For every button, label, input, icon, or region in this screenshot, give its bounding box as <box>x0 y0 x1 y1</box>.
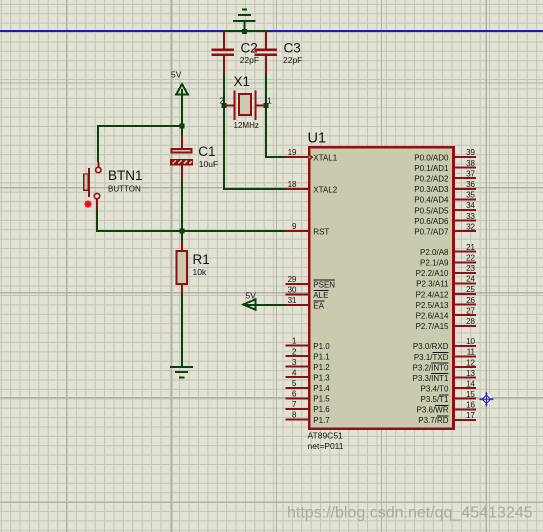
svg-text:27: 27 <box>466 306 475 315</box>
U1 pin 33 P0.6/AD6 <box>414 212 476 226</box>
svg-text:RST: RST <box>313 227 329 236</box>
svg-text:22pF: 22pF <box>283 55 302 65</box>
svg-text:9: 9 <box>292 222 297 231</box>
U1 pin 15 P3.5/T1 <box>420 390 476 404</box>
U1 pin 28 P2.7/A15 <box>416 317 476 331</box>
U1 pin 27 P2.6/A14 <box>416 306 476 320</box>
svg-text:XTAL1: XTAL1 <box>313 153 337 162</box>
U1 pin 25 P2.4/A12 <box>416 285 476 299</box>
svg-text:EA: EA <box>313 301 324 310</box>
svg-text:P0.5/AD5: P0.5/AD5 <box>414 206 449 215</box>
svg-text:34: 34 <box>466 201 475 210</box>
svg-text:2: 2 <box>220 96 225 105</box>
U1 pin 16 P3.6/WR <box>416 401 476 415</box>
U1 pin 35 P0.4/AD4 <box>414 191 476 205</box>
ground (top) <box>233 10 256 31</box>
svg-text:AT89C51: AT89C51 <box>308 430 344 440</box>
cursor crosshair marker <box>479 392 494 407</box>
wire: C3 to XTAL1 corner <box>266 74 287 157</box>
wire: 5V arrow down to junction <box>181 89 183 136</box>
svg-text:P2.2/A10: P2.2/A10 <box>416 269 449 278</box>
svg-text:P1.7: P1.7 <box>313 416 330 425</box>
wire: top horizontal blue line <box>0 30 543 32</box>
svg-text:P1.3: P1.3 <box>313 374 330 383</box>
U1 pin 23 P2.2/A10 <box>416 264 476 278</box>
svg-text:R1: R1 <box>193 252 210 267</box>
svg-text:36: 36 <box>466 180 475 189</box>
svg-text:19: 19 <box>288 148 297 157</box>
U1 pin 11 P3.1/TXD <box>414 348 476 362</box>
U1 pin 38 P0.1/AD1 <box>414 159 476 173</box>
svg-text:11: 11 <box>467 348 476 357</box>
wire: BTN1 bottom to RST rail <box>96 209 98 231</box>
svg-text:35: 35 <box>466 191 475 200</box>
U1 pin 26 P2.5/A13 <box>416 296 476 310</box>
svg-text:P3.6/WR: P3.6/WR <box>416 406 448 415</box>
junction: top ground node <box>242 29 247 34</box>
svg-text:P1.1: P1.1 <box>313 352 330 361</box>
U1 pin 31 EA <box>286 296 325 310</box>
svg-text:P2.7/A15: P2.7/A15 <box>416 322 449 331</box>
svg-text:13: 13 <box>466 369 475 378</box>
U1 pin 36 P0.3/AD3 <box>414 180 476 194</box>
capacitor C1 <box>170 136 218 180</box>
U1 pin 10 P3.0/RXD <box>413 337 476 351</box>
svg-text:PSEN: PSEN <box>313 280 335 289</box>
svg-text:C2: C2 <box>241 40 258 55</box>
svg-text:10uF: 10uF <box>199 159 218 169</box>
svg-text:5: 5 <box>292 379 297 388</box>
svg-text:P0.0/AD0: P0.0/AD0 <box>414 153 449 162</box>
U1 pin 32 P0.7/AD7 <box>414 222 476 236</box>
svg-text:26: 26 <box>466 296 475 305</box>
IC U1 AT89C51 body <box>308 130 454 451</box>
U1 pin 12 P3.2/INT0 <box>412 358 476 372</box>
svg-text:P1.2: P1.2 <box>313 363 330 372</box>
svg-text:2: 2 <box>292 347 297 356</box>
svg-text:C1: C1 <box>198 144 215 159</box>
capacitor C3 <box>254 31 302 74</box>
U1 pin 14 P3.4/T0 <box>420 379 476 393</box>
svg-text:P0.4/AD4: P0.4/AD4 <box>414 196 449 205</box>
U1 pin 8 P1.7 <box>286 411 331 425</box>
svg-text:U1: U1 <box>308 130 327 146</box>
svg-text:P1.4: P1.4 <box>313 384 330 393</box>
svg-text:15: 15 <box>466 390 475 399</box>
U1 pin 37 P0.2/AD2 <box>414 169 476 183</box>
svg-text:XTAL2: XTAL2 <box>313 185 337 194</box>
svg-text:P2.3/A11: P2.3/A11 <box>416 280 449 289</box>
capacitor C2 <box>211 31 259 74</box>
svg-text:P2.4/A12: P2.4/A12 <box>416 290 449 299</box>
resistor R1 <box>176 241 209 294</box>
svg-text:P3.4/T0: P3.4/T0 <box>420 385 449 394</box>
svg-text:39: 39 <box>466 148 475 157</box>
ground (bottom) <box>170 367 193 377</box>
svg-text:P3.5/T1: P3.5/T1 <box>420 395 449 404</box>
svg-text:C3: C3 <box>284 40 301 55</box>
U1 pin 29 PSEN <box>286 275 336 289</box>
svg-text:P2.0/A8: P2.0/A8 <box>420 248 449 257</box>
svg-text:12: 12 <box>466 358 475 367</box>
U1 pin 30 ALE <box>286 286 329 300</box>
svg-text:P2.1/A9: P2.1/A9 <box>420 259 449 268</box>
svg-text:P2.5/A13: P2.5/A13 <box>416 301 449 310</box>
svg-text:1: 1 <box>267 96 272 105</box>
button BTN1 <box>84 162 143 209</box>
svg-text:P3.3/INT1: P3.3/INT1 <box>412 374 449 383</box>
svg-text:P3.0/RXD: P3.0/RXD <box>413 342 449 351</box>
U1 pin 7 P1.6 <box>286 400 331 414</box>
svg-text:https://blog.csdn.net/qq_45413: https://blog.csdn.net/qq_45413245 <box>287 505 533 522</box>
svg-text:P3.1/TXD: P3.1/TXD <box>414 353 449 362</box>
U1 pin 22 P2.1/A9 <box>420 254 476 268</box>
U1 pin 4 P1.3 <box>286 368 331 382</box>
svg-text:P0.1/AD1: P0.1/AD1 <box>414 164 449 173</box>
svg-text:P0.3/AD3: P0.3/AD3 <box>414 185 449 194</box>
svg-text:X1: X1 <box>234 74 251 89</box>
svg-text:7: 7 <box>292 400 297 409</box>
svg-text:P1.5: P1.5 <box>313 395 330 404</box>
U1 pin 13 P3.3/INT1 <box>412 369 476 383</box>
power +5V (EA pin) <box>243 290 256 310</box>
svg-text:1: 1 <box>292 337 297 346</box>
junction: RST node <box>180 229 185 234</box>
wire: R1 to ground <box>181 294 183 368</box>
svg-text:21: 21 <box>466 243 475 252</box>
svg-text:6: 6 <box>292 390 297 399</box>
U1 pin 18 XTAL2 <box>286 180 338 194</box>
U1 pin 5 P1.4 <box>286 379 331 393</box>
svg-text:22pF: 22pF <box>240 55 259 65</box>
U1 pin 17 P3.7/RD <box>418 411 476 425</box>
svg-text:P3.7/RD: P3.7/RD <box>418 416 448 425</box>
svg-text:24: 24 <box>466 275 475 284</box>
svg-text:37: 37 <box>466 169 475 178</box>
wire: C2 to XTAL2 corner <box>224 74 287 189</box>
svg-text:3: 3 <box>292 358 297 367</box>
svg-text:5V: 5V <box>171 70 182 80</box>
svg-text:30: 30 <box>288 286 297 295</box>
svg-text:net=P011: net=P011 <box>308 441 344 451</box>
junction: 5V rail / BTN1 top node <box>180 124 185 129</box>
U1 pin 39 P0.0/AD0 <box>414 148 476 162</box>
U1 pin 6 P1.5 <box>286 390 331 404</box>
svg-text:4: 4 <box>292 368 297 377</box>
svg-text:BTN1: BTN1 <box>108 168 143 183</box>
svg-text:BUTTON: BUTTON <box>108 184 141 193</box>
svg-text:P0.6/AD6: P0.6/AD6 <box>414 217 449 226</box>
svg-text:22: 22 <box>466 254 475 263</box>
svg-text:P0.7/AD7: P0.7/AD7 <box>414 228 449 237</box>
svg-text:P1.0: P1.0 <box>313 342 330 351</box>
wire: junction to BTN1 top <box>97 125 183 127</box>
svg-text:23: 23 <box>466 264 475 273</box>
U1 pin 21 P2.0/A8 <box>420 243 476 257</box>
svg-text:16: 16 <box>466 401 475 410</box>
svg-text:17: 17 <box>466 411 475 420</box>
svg-text:14: 14 <box>466 379 475 388</box>
svg-text:29: 29 <box>288 275 297 284</box>
svg-text:P3.2/INT0: P3.2/INT0 <box>412 363 449 372</box>
svg-text:28: 28 <box>466 317 475 326</box>
svg-text:P1.6: P1.6 <box>313 405 330 414</box>
wire: top rail between C2 and C3 <box>223 30 267 32</box>
wire: C1 to RST rail <box>181 179 183 241</box>
U1 pin 19 XTAL1 <box>286 148 338 162</box>
svg-text:P0.2/AD2: P0.2/AD2 <box>414 175 449 184</box>
svg-text:31: 31 <box>288 296 297 305</box>
U1 pin 24 P2.3/A11 <box>416 275 476 289</box>
wire: RST horizontal <box>96 230 287 232</box>
svg-text:33: 33 <box>466 212 475 221</box>
svg-text:8: 8 <box>292 411 297 420</box>
junction: crystal pin 2 node <box>222 103 227 108</box>
svg-text:32: 32 <box>466 222 475 231</box>
svg-text:25: 25 <box>466 285 475 294</box>
svg-text:38: 38 <box>466 159 475 168</box>
U1 pin 34 P0.5/AD5 <box>414 201 476 215</box>
U1 pin 2 P1.1 <box>286 347 331 361</box>
svg-text:10: 10 <box>466 337 475 346</box>
U1 pin 3 P1.2 <box>286 358 331 372</box>
svg-text:18: 18 <box>288 180 297 189</box>
svg-text:12MHz: 12MHz <box>234 121 259 130</box>
crystal X1 <box>220 74 273 130</box>
U1 pin 1 P1.0 <box>286 337 331 351</box>
svg-text:P2.6/A14: P2.6/A14 <box>416 312 449 321</box>
junction: crystal pin 1 node <box>264 103 269 108</box>
power +5V (top) <box>171 70 188 95</box>
wire: 5V to EA <box>246 304 287 306</box>
svg-text:10k: 10k <box>193 267 207 277</box>
svg-text:ALE: ALE <box>313 291 328 300</box>
U1 pin 9 RST <box>286 222 330 236</box>
